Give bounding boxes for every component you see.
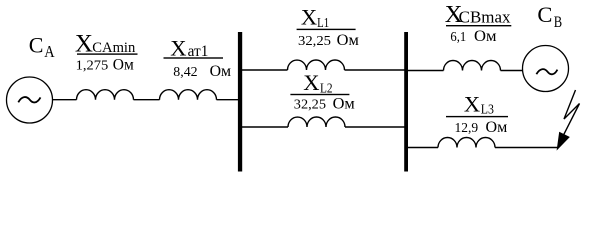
- svg-text:X: X: [170, 35, 186, 60]
- svg-text:B: B: [554, 14, 562, 31]
- svg-text:Ом: Ом: [337, 32, 359, 49]
- svg-text:C: C: [29, 32, 44, 57]
- svg-text:8,42: 8,42: [173, 65, 197, 80]
- svg-text:Ом: Ом: [486, 119, 508, 136]
- svg-text:6,1: 6,1: [450, 30, 466, 45]
- svg-text:X: X: [75, 30, 93, 57]
- svg-text:L3: L3: [481, 103, 494, 118]
- svg-text:32,25: 32,25: [294, 97, 326, 112]
- svg-text:X: X: [301, 5, 317, 30]
- svg-text:CBmax: CBmax: [459, 8, 512, 27]
- svg-text:12,9: 12,9: [455, 121, 479, 136]
- svg-text:A: A: [44, 42, 55, 61]
- svg-text:Ом: Ом: [210, 63, 232, 80]
- svg-text:1,275: 1,275: [76, 59, 109, 74]
- svg-text:C: C: [537, 2, 552, 27]
- svg-text:X: X: [464, 92, 480, 117]
- svg-text:Ом: Ом: [474, 28, 497, 45]
- svg-text:X: X: [303, 70, 319, 95]
- svg-text:32,25: 32,25: [298, 34, 331, 49]
- svg-text:Ом: Ом: [113, 57, 134, 74]
- svg-text:Ом: Ом: [333, 95, 355, 112]
